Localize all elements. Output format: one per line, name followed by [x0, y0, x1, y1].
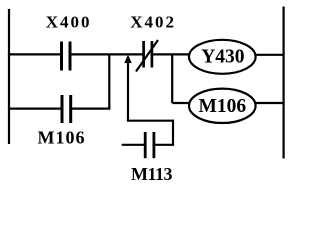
wire rung2 left segment	[8, 107, 62, 109]
coil Y430 oval	[189, 40, 256, 74]
slash of X402	[136, 40, 158, 72]
svg-text:M113: M113	[131, 164, 172, 184]
svg-text:M106: M106	[198, 96, 246, 117]
wire rung1 middle segment	[70, 53, 144, 55]
contact M113	[122, 144, 146, 146]
wire arrow branch vertical	[127, 60, 129, 121]
wire branch to M106 coil horizontal	[172, 102, 190, 104]
contact X402 (normally closed)	[144, 41, 152, 68]
coil M106 oval	[189, 89, 256, 123]
contact M106	[62, 95, 71, 123]
wire junction vertical (rung1 to rung2)	[108, 54, 110, 108]
arrowhead on branch wire	[124, 55, 131, 63]
contact X400	[62, 42, 71, 71]
wire elbow vertical down to M113	[172, 120, 174, 145]
wire rung1 left segment	[8, 53, 62, 55]
svg-text:Y430: Y430	[201, 46, 244, 67]
wire M106 coil to right rail	[256, 102, 284, 104]
wire Y430 coil to right rail	[256, 54, 284, 56]
wire branch to M106 coil vertical	[171, 54, 173, 103]
left power rail	[8, 9, 10, 144]
wire elbow horizontal	[127, 120, 173, 122]
svg-text:M106: M106	[38, 127, 86, 147]
svg-text:X402: X402	[130, 13, 176, 32]
right power rail	[283, 7, 285, 159]
wire rung2 right segment	[71, 107, 111, 109]
wire rung1 right segment	[152, 53, 190, 55]
svg-text:X400: X400	[46, 13, 92, 32]
